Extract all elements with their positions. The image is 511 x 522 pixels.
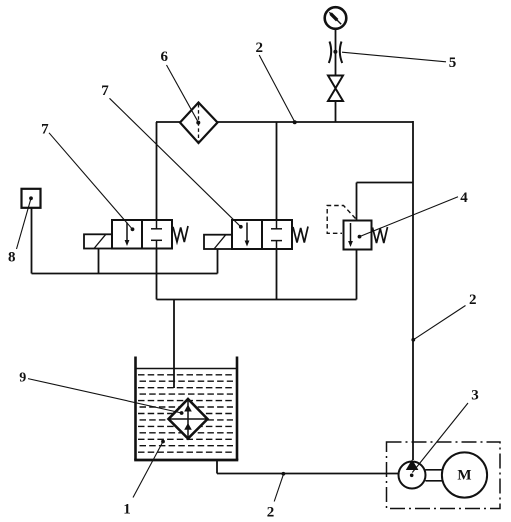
filter 6 (diamond with dashed element) [180, 103, 218, 144]
label 8 [8, 250, 16, 266]
leader line to label 9 [28, 379, 184, 415]
svg-text:2: 2 [469, 292, 477, 308]
wire: gauge branch riser [335, 101, 337, 122]
gauge snubber symbol [329, 42, 342, 64]
wire: solenoid stub valve V2 [217, 249, 219, 274]
valve V1 body (2/2 directional valve) [112, 220, 172, 249]
wire: suction line to pump [217, 473, 399, 475]
label 2 (right) [469, 292, 477, 308]
wire: tank outlet drop [216, 459, 218, 474]
shut-off valve 5 (hourglass) [328, 76, 343, 102]
wire: drain header horizontal [157, 299, 357, 301]
label 1 [123, 502, 131, 518]
wire: solenoid stub valve V1 [98, 249, 100, 274]
svg-text:8: 8 [8, 250, 16, 266]
leader line to label 2 (bottom) [274, 472, 285, 502]
leader line to label 6 [167, 65, 199, 122]
leader line to label 5 [342, 52, 446, 62]
valve V2 blocked ports (T symbols) [271, 220, 282, 249]
svg-text:6: 6 [161, 49, 169, 65]
wire: valve V1 top port riser [156, 122, 158, 220]
label 9 [19, 371, 26, 386]
svg-text:5: 5 [449, 55, 457, 71]
valve V2 arrow (open position) [245, 223, 250, 247]
svg-text:M: M [457, 468, 471, 484]
leader line to label 7 (first valve) [49, 133, 134, 231]
relief valve 4 pilot line (dashed) [327, 206, 355, 234]
valve V1 solenoid box [84, 234, 112, 248]
wire: relief valve branch horizontal [357, 182, 414, 184]
svg-text:2: 2 [267, 505, 275, 521]
svg-text:7: 7 [41, 122, 49, 138]
pressure gauge [325, 7, 347, 29]
relief valve 4 body [344, 221, 372, 250]
wire: valve V1 bottom port drop [156, 249, 158, 300]
wire: main pressure line top horizontal left of filter [156, 121, 181, 123]
relief valve 4 arrow [348, 223, 353, 247]
wire: return pipe into tank [173, 300, 175, 389]
svg-text:7: 7 [101, 83, 109, 99]
pump-motor coupling [426, 470, 443, 481]
wire: gauge stem [335, 29, 337, 76]
valve V1 blocked ports (T symbols) [151, 220, 162, 249]
wire: relief valve top riser [356, 183, 358, 221]
label 2 (bottom) [267, 505, 275, 521]
label 6 [161, 49, 169, 65]
valve V1 arrow (open position) [125, 223, 130, 247]
label 4 [460, 190, 468, 206]
switch 8 (square) [22, 189, 41, 208]
leader line to label 4 [358, 197, 458, 239]
leader line to label 3 [412, 403, 468, 473]
leader line to label 7 (second valve) [110, 98, 243, 228]
pump 3 circle [399, 459, 426, 488]
leader line to label 8 [17, 196, 33, 249]
wire: valve V2 top port riser [276, 122, 278, 220]
svg-text:2: 2 [256, 40, 264, 56]
label 3 [471, 388, 479, 404]
tank 1 walls [134, 357, 238, 461]
pump unit enclosure (dash-dot box) [387, 442, 501, 509]
svg-text:4: 4 [460, 190, 468, 206]
wire: switch 8 drop wire [31, 208, 33, 274]
label 7 (second) [101, 83, 109, 99]
label 5 [449, 55, 457, 71]
valve V1 spring W [173, 226, 188, 242]
wire: valve V2 bottom port drop [276, 249, 278, 300]
leader line to label 1 [133, 440, 165, 498]
wire: right vertical pressure line to pump [412, 121, 414, 460]
valve V2 spring W [293, 227, 308, 243]
tank liquid hatching (dashed rows) [138, 375, 235, 452]
tank liquid surface line [136, 368, 238, 370]
svg-text:3: 3 [471, 388, 479, 404]
heat exchanger 9 (diamond in tank) [169, 399, 208, 439]
wire: main pressure line top horizontal right of filter [217, 121, 413, 123]
wire: relief valve bottom drop [356, 250, 358, 300]
svg-text:1: 1 [123, 502, 131, 518]
leader line to label 2 (right) [411, 306, 465, 342]
valve V2 body (2/2 directional valve) [232, 220, 292, 249]
leader line to label 2 (top) [259, 55, 297, 124]
valve V2 solenoid box [204, 235, 232, 249]
label 7 (first) [41, 122, 49, 138]
motor M circle [442, 452, 487, 497]
relief valve 4 spring W [373, 227, 388, 243]
label 2 (top) [256, 40, 264, 56]
wire: control wire horizontal from switch 8 [32, 273, 218, 275]
svg-text:9: 9 [19, 371, 26, 386]
